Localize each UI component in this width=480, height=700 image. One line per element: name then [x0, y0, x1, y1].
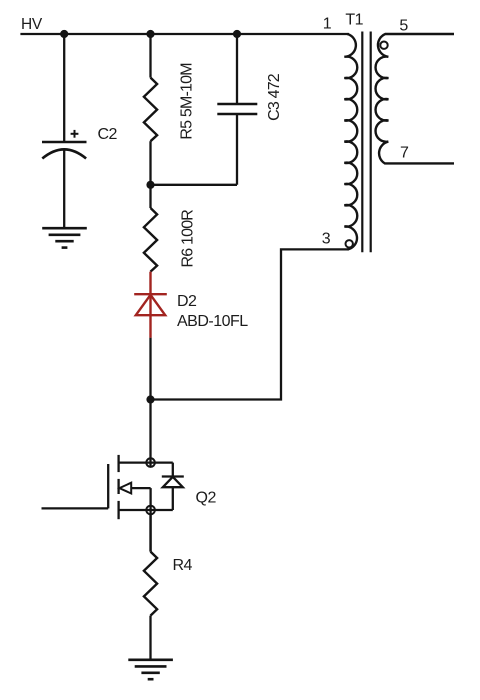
- Q2 gate bar: [107, 464, 109, 508]
- wire C2 bottom to ground: [63, 150, 65, 228]
- resistor R4: [144, 552, 157, 616]
- svg-text:R4: R4: [173, 557, 193, 574]
- resistor R5: [144, 78, 157, 142]
- wire R5-C3 link: [151, 184, 238, 186]
- wire C3 bottom: [236, 115, 238, 185]
- junction node HV/C2: [60, 30, 68, 38]
- junction node HV/R5: [146, 30, 154, 38]
- Q2 bulk link: [131, 487, 150, 489]
- Q2 source pin circle: [146, 506, 155, 515]
- Q2 arrow: [119, 483, 131, 494]
- transformer T1 core: [362, 32, 370, 253]
- svg-text:R6 100R: R6 100R: [179, 210, 196, 268]
- svg-text:C3 472: C3 472: [266, 73, 283, 121]
- Q2 source link: [119, 509, 173, 511]
- wire Q2 source down: [149, 514, 151, 552]
- transformer T1 secondary winding: [376, 34, 454, 163]
- wire R5 bottom: [149, 141, 151, 185]
- svg-text:ABD-10FL: ABD-10FL: [177, 313, 248, 330]
- Q2 body diode cathode bar: [162, 475, 184, 477]
- polarity dot primary (pin 3): [346, 240, 353, 247]
- polarity dot secondary (pin 5): [380, 42, 387, 49]
- wire R4 bottom to ground: [149, 616, 151, 660]
- Q2 drain pin circle: [146, 458, 155, 467]
- Q2 channel dash middle: [117, 479, 119, 494]
- diode D2: [134, 272, 167, 338]
- capacitor C3: [217, 104, 257, 114]
- wire HV rail: [20, 33, 349, 35]
- wire C2 top: [63, 34, 65, 141]
- junction node D2/Q2/T1: [146, 395, 154, 403]
- wire C3 top: [236, 34, 238, 103]
- wire R5 top: [149, 34, 151, 78]
- svg-text:7: 7: [400, 145, 409, 162]
- svg-text:C2: C2: [98, 126, 118, 143]
- junction node HV/C3: [233, 30, 241, 38]
- transistor Q2 (NMOS): [108, 455, 184, 552]
- Q2 body diode triangle: [163, 477, 183, 487]
- wire R6 top: [149, 185, 151, 208]
- Q2 bulk-to-source wire: [149, 488, 151, 551]
- capacitor C2: [42, 142, 87, 159]
- ground (C2): [42, 228, 87, 247]
- svg-text:HV: HV: [21, 16, 43, 33]
- svg-text:T1: T1: [345, 12, 363, 29]
- Q2 drain link: [119, 461, 173, 463]
- svg-text:3: 3: [322, 231, 331, 248]
- resistor R6: [144, 208, 157, 272]
- ground (R4): [128, 660, 173, 679]
- svg-text:D2: D2: [177, 293, 197, 310]
- svg-text:1: 1: [323, 16, 332, 33]
- transformer T1 primary winding: [344, 34, 357, 249]
- Q2 body diode cathode lead: [172, 463, 174, 477]
- svg-text:Q2: Q2: [196, 490, 217, 507]
- svg-text:5: 5: [399, 18, 408, 35]
- junction node R5/C3/R6: [146, 181, 154, 189]
- C2 polarity plus sign: [71, 130, 79, 138]
- wire node to transformer pin 3: [151, 249, 350, 399]
- wire Q2 gate lead: [42, 507, 109, 509]
- Q2 body diode anode lead: [172, 487, 174, 510]
- Q2 channel dash top: [117, 455, 119, 472]
- Q2 channel dash bottom: [117, 501, 119, 519]
- svg-text:R5 5M-10M: R5 5M-10M: [178, 63, 195, 140]
- wire D2 to Q2 drain: [149, 338, 151, 467]
